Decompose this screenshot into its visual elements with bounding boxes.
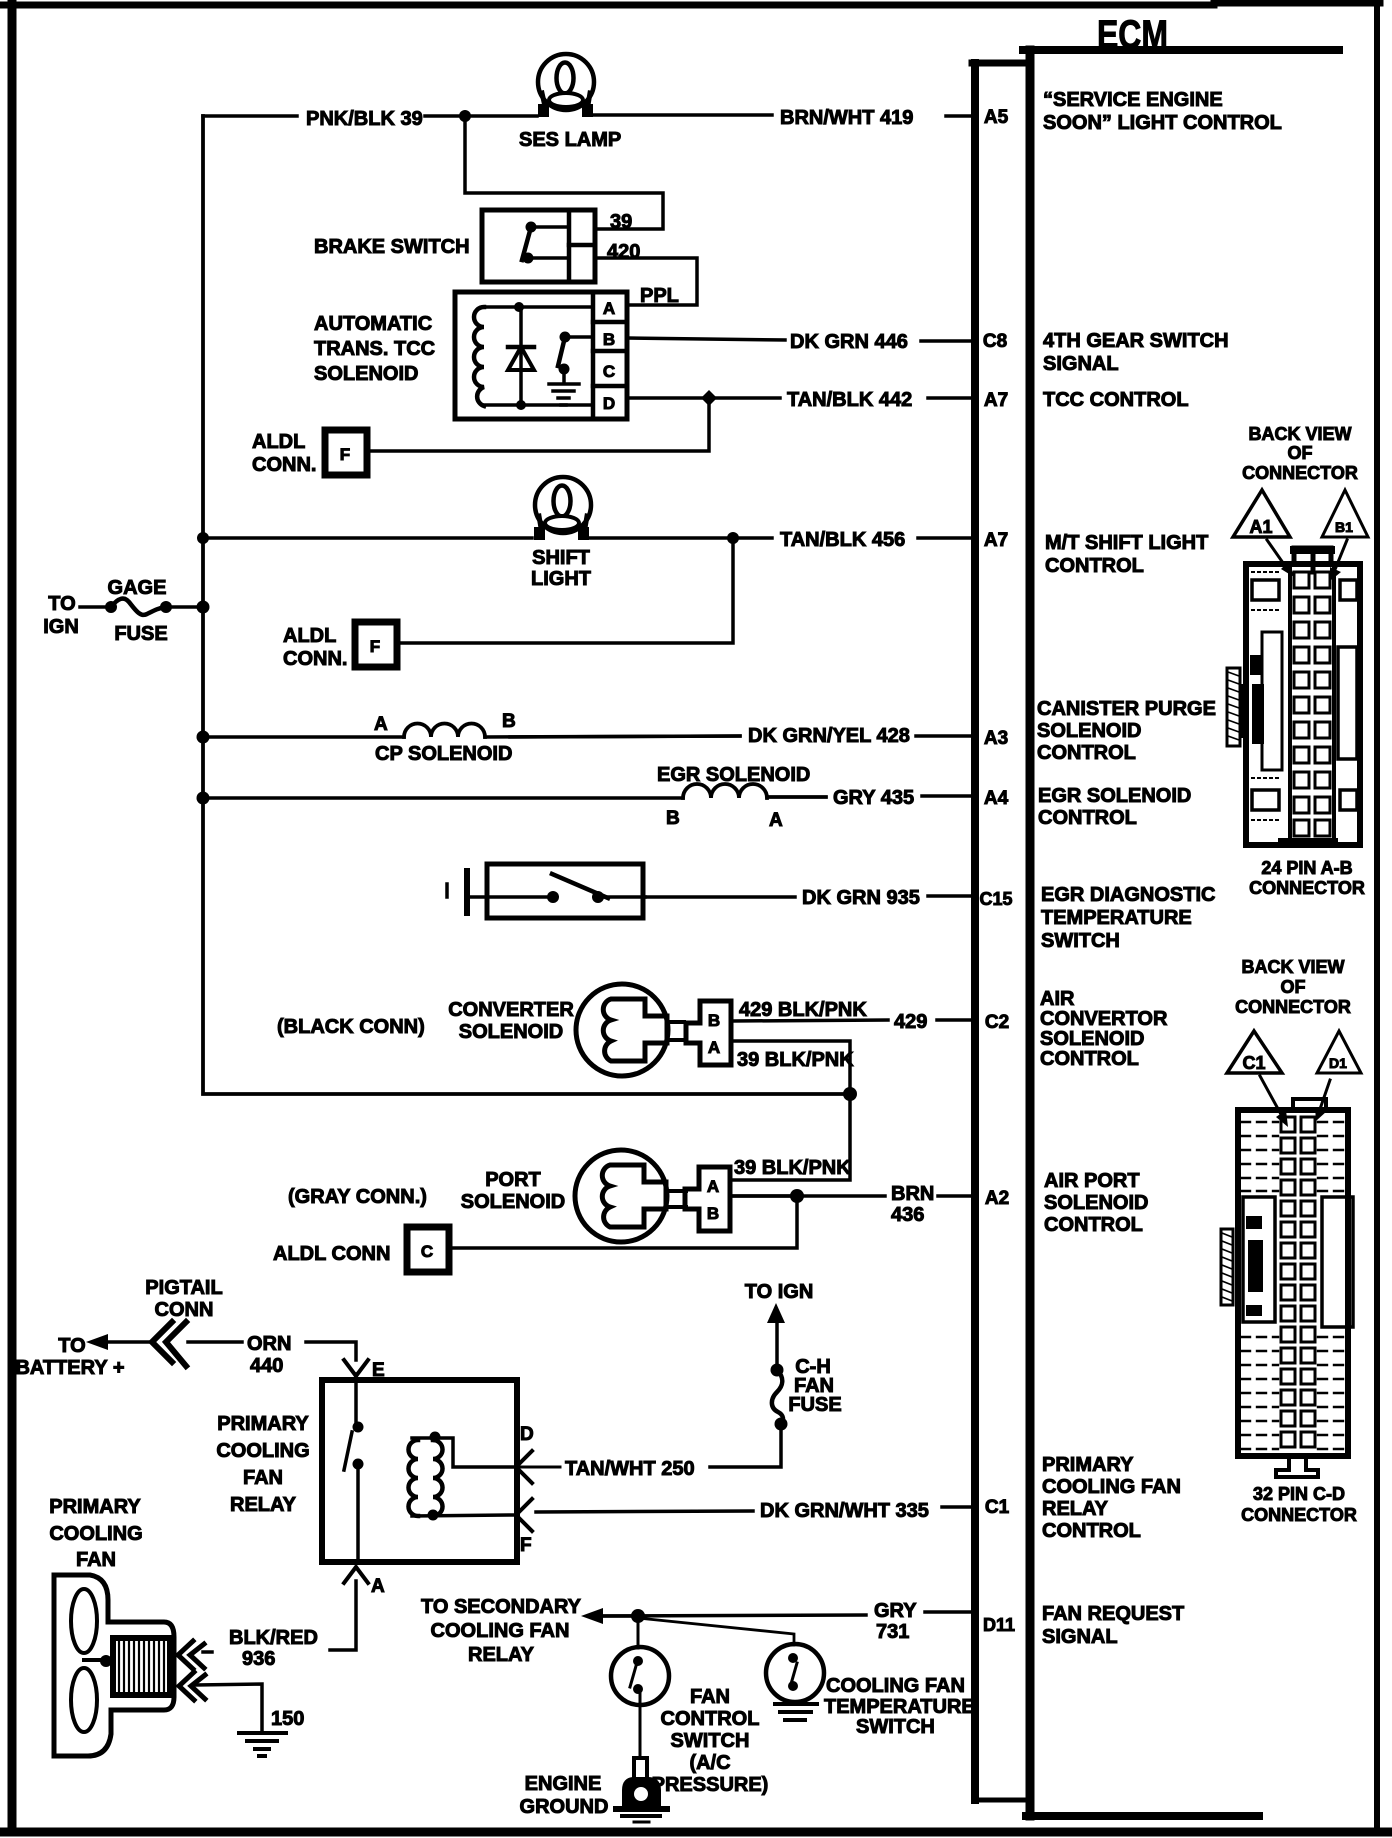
svg-text:A1: A1 bbox=[1249, 517, 1272, 537]
wire PNK/BLK 39 bbox=[203, 114, 537, 118]
svg-text:TAN/BLK 456: TAN/BLK 456 bbox=[780, 529, 905, 551]
svg-text:C1: C1 bbox=[1242, 1053, 1265, 1073]
wire 429 BLK/PNK to C2 bbox=[733, 1020, 973, 1021]
svg-text:AIR: AIR bbox=[1040, 988, 1075, 1010]
svg-text:OF: OF bbox=[1288, 443, 1313, 463]
bottom tab bbox=[1278, 838, 1338, 847]
svg-text:429: 429 bbox=[894, 1011, 927, 1033]
svg-text:F: F bbox=[370, 637, 380, 656]
pin D arrow bbox=[516, 1451, 532, 1483]
svg-text:BRN/WHT 419: BRN/WHT 419 bbox=[780, 107, 913, 129]
dashed rows lower bbox=[1241, 1337, 1345, 1449]
brake switch S1 bbox=[482, 210, 595, 282]
solenoid: automatic trans TCC solenoid bbox=[455, 292, 627, 419]
svg-text:429 BLK/PNK: 429 BLK/PNK bbox=[739, 999, 867, 1021]
svg-text:DK GRN 446: DK GRN 446 bbox=[790, 331, 908, 353]
switch FAN CONTROL (A/C pressure) bbox=[611, 1647, 669, 1758]
svg-text:BACK VIEW: BACK VIEW bbox=[1242, 957, 1345, 977]
wire TAN/WHT 250 bbox=[516, 1466, 560, 1469]
wire GRY 731 to D11 bbox=[595, 1612, 973, 1616]
svg-text:B1: B1 bbox=[1335, 519, 1353, 535]
node bus/CP solenoid bbox=[197, 731, 210, 744]
svg-text:SIGNAL: SIGNAL bbox=[1042, 1626, 1118, 1648]
svg-text:SOLENOID: SOLENOID bbox=[1040, 1028, 1144, 1050]
svg-text:ALDL: ALDL bbox=[252, 431, 305, 453]
solenoid PORT (circle) bbox=[575, 1150, 686, 1242]
svg-text:ALDL: ALDL bbox=[283, 625, 336, 647]
wire BLK/RED 936 bbox=[330, 1581, 356, 1650]
svg-text:LIGHT: LIGHT bbox=[531, 568, 591, 590]
node 39 BLK/PNK junction bbox=[843, 1087, 857, 1101]
svg-text:CONN.: CONN. bbox=[283, 648, 347, 670]
svg-text:EGR DIAGNOSTIC: EGR DIAGNOSTIC bbox=[1041, 884, 1215, 906]
node C1 triangle bbox=[1227, 1031, 1288, 1127]
svg-text:SWITCH: SWITCH bbox=[856, 1716, 935, 1738]
svg-text:OF: OF bbox=[1281, 977, 1306, 997]
keyway bottom left bbox=[1252, 790, 1279, 810]
svg-text:C15: C15 bbox=[979, 889, 1012, 909]
wire BRN/WHT 419 to A5 bbox=[592, 115, 973, 116]
node D1 triangle bbox=[1315, 1031, 1361, 1121]
node junction PNK/BLK 39 bbox=[459, 110, 471, 122]
node GRY 731 junction bbox=[631, 1609, 645, 1623]
svg-text:EGR SOLENOID: EGR SOLENOID bbox=[657, 764, 810, 786]
wire DK GRN/YEL 428 to A3 bbox=[510, 736, 973, 737]
svg-text:A: A bbox=[769, 810, 783, 831]
svg-text:39 BLK/PNK: 39 BLK/PNK bbox=[734, 1157, 851, 1179]
svg-text:FAN REQUEST: FAN REQUEST bbox=[1042, 1603, 1184, 1625]
svg-text:AUTOMATIC: AUTOMATIC bbox=[314, 313, 432, 335]
wire 39 BLK/PNK converter A to junction bbox=[730, 1041, 850, 1180]
svg-text:D11: D11 bbox=[983, 1615, 1015, 1635]
svg-text:IGN: IGN bbox=[43, 616, 79, 638]
svg-text:SOLENOID: SOLENOID bbox=[314, 363, 418, 385]
svg-text:CONTROL: CONTROL bbox=[1042, 1520, 1141, 1542]
left middle slot bbox=[1243, 1197, 1275, 1322]
svg-text:A: A bbox=[708, 1038, 720, 1057]
wire to gage fuse bbox=[80, 605, 111, 609]
svg-text:(GRAY CONN.): (GRAY CONN.) bbox=[288, 1186, 427, 1208]
wire ORN 440 bbox=[188, 1340, 242, 1344]
wire port B to BRN 436 junction and ALDL C bbox=[730, 1194, 797, 1198]
wire shift light row bbox=[203, 536, 532, 540]
svg-text:DK GRN/WHT 335: DK GRN/WHT 335 bbox=[760, 1500, 929, 1522]
svg-text:SIGNAL: SIGNAL bbox=[1043, 353, 1119, 375]
svg-text:CONTROL: CONTROL bbox=[1037, 742, 1136, 764]
svg-text:BATTERY +: BATTERY + bbox=[15, 1357, 124, 1379]
svg-text:TO: TO bbox=[58, 1335, 85, 1357]
svg-text:COOLING FAN: COOLING FAN bbox=[826, 1675, 965, 1697]
svg-text:BACK VIEW: BACK VIEW bbox=[1249, 424, 1352, 444]
diode D1 inside TCC solenoid bbox=[508, 302, 534, 410]
svg-text:936: 936 bbox=[242, 1648, 275, 1670]
wire coil bottom to pin D bbox=[484, 403, 593, 407]
svg-text:BLK/RED: BLK/RED bbox=[229, 1627, 318, 1649]
svg-text:CONNECTOR: CONNECTOR bbox=[1241, 1505, 1357, 1525]
arrow to battery bbox=[86, 1334, 108, 1350]
svg-text:C1: C1 bbox=[985, 1497, 1010, 1518]
svg-text:150: 150 bbox=[271, 1708, 304, 1730]
svg-text:D: D bbox=[603, 394, 615, 413]
svg-text:RELAY: RELAY bbox=[468, 1644, 535, 1666]
svg-text:“SERVICE ENGINE: “SERVICE ENGINE bbox=[1043, 89, 1223, 111]
svg-text:A: A bbox=[374, 714, 388, 735]
svg-text:PNK/BLK 39: PNK/BLK 39 bbox=[306, 108, 423, 130]
switch COOLING FAN TEMPERATURE bbox=[766, 1644, 824, 1702]
keyway top left bbox=[1252, 580, 1279, 600]
svg-text:ENGINE: ENGINE bbox=[525, 1773, 602, 1795]
wire fan to 150 ground bbox=[196, 1684, 262, 1732]
4th gear switch inside TCC solenoid bbox=[558, 332, 593, 384]
left pin column squares bbox=[1281, 1117, 1295, 1447]
EGR diagnostic temperature switch bbox=[447, 864, 645, 918]
pin E arrow into relay bbox=[344, 1360, 368, 1376]
relay PRIMARY COOLING FAN RELAY box bbox=[322, 1380, 517, 1562]
svg-text:BRAKE SWITCH: BRAKE SWITCH bbox=[314, 236, 470, 258]
svg-text:SOLENOID: SOLENOID bbox=[1037, 720, 1141, 742]
svg-text:GRY: GRY bbox=[874, 1600, 917, 1622]
svg-text:D1: D1 bbox=[1329, 1055, 1347, 1071]
svg-text:A: A bbox=[707, 1177, 719, 1196]
svg-text:PRIMARY: PRIMARY bbox=[1042, 1454, 1134, 1476]
svg-text:A7: A7 bbox=[984, 390, 1008, 411]
svg-text:DK GRN/YEL 428: DK GRN/YEL 428 bbox=[748, 725, 910, 747]
svg-text:TO: TO bbox=[48, 593, 75, 615]
right pin column squares bbox=[1301, 1117, 1315, 1447]
dashed rows upper bbox=[1241, 1122, 1345, 1191]
wire TAN/BLK 456 to A7 bbox=[590, 536, 973, 540]
connector ALDL CONN. F (2) bbox=[355, 622, 397, 667]
svg-text:CONTROL: CONTROL bbox=[1045, 555, 1144, 577]
svg-text:SHIFT: SHIFT bbox=[532, 547, 590, 569]
solenoid CONVERTER (circle) bbox=[576, 984, 684, 1076]
right middle slot bbox=[1338, 647, 1357, 759]
connector ALDL CONN C bbox=[407, 1227, 449, 1272]
relay coil bbox=[409, 1432, 514, 1521]
svg-text:B: B bbox=[708, 1011, 720, 1030]
wire BRN 436 to A2 bbox=[733, 1194, 973, 1198]
fan connector chevrons (top) bbox=[178, 1641, 204, 1669]
node bus/fuse bbox=[197, 601, 210, 614]
connector plug A/B (port) bbox=[685, 1167, 730, 1231]
svg-text:C: C bbox=[421, 1242, 433, 1261]
wire GRY 435 to A4 bbox=[768, 796, 973, 797]
svg-text:SOLENOID: SOLENOID bbox=[461, 1191, 565, 1213]
svg-text:SES LAMP: SES LAMP bbox=[519, 129, 621, 151]
svg-text:731: 731 bbox=[876, 1621, 909, 1643]
svg-text:32 PIN C-D: 32 PIN C-D bbox=[1253, 1484, 1345, 1504]
svg-text:TO IGN: TO IGN bbox=[745, 1281, 814, 1303]
node A1 triangle bbox=[1233, 490, 1294, 577]
svg-text:COOLING FAN: COOLING FAN bbox=[431, 1620, 570, 1642]
svg-text:TCC CONTROL: TCC CONTROL bbox=[1043, 389, 1189, 411]
svg-text:C: C bbox=[603, 362, 615, 381]
arrow TO IGN (fan fuse) bbox=[775, 1322, 779, 1370]
fuse GAGE FUSE bbox=[105, 599, 203, 615]
svg-text:FUSE: FUSE bbox=[114, 623, 167, 645]
svg-text:420: 420 bbox=[607, 241, 640, 263]
left middle slot bbox=[1289, 628, 1292, 770]
svg-text:CONNECTOR: CONNECTOR bbox=[1242, 463, 1358, 483]
svg-text:A2: A2 bbox=[985, 1188, 1009, 1209]
svg-text:CONN: CONN bbox=[155, 1299, 214, 1321]
svg-text:C8: C8 bbox=[983, 331, 1007, 352]
svg-text:PPL: PPL bbox=[640, 285, 679, 307]
svg-text:24 PIN A-B: 24 PIN A-B bbox=[1261, 858, 1352, 878]
left pin column squares bbox=[1294, 572, 1309, 836]
wire junction to brake switch pin 39 bbox=[465, 116, 663, 229]
fan connector chevrons (bottom) bbox=[179, 1672, 205, 1700]
svg-text:SWITCH: SWITCH bbox=[1041, 930, 1120, 952]
page border frame bbox=[8, 4, 17, 1832]
motor PRIMARY COOLING FAN bbox=[54, 1575, 174, 1756]
svg-text:B: B bbox=[502, 711, 516, 732]
junction on TAN/BLK 456 bbox=[727, 532, 739, 544]
svg-text:PIGTAIL: PIGTAIL bbox=[145, 1277, 222, 1299]
svg-text:GROUND: GROUND bbox=[520, 1796, 609, 1818]
svg-text:ORN: ORN bbox=[247, 1333, 291, 1355]
main ignition bus wire bbox=[203, 116, 850, 1094]
svg-text:PRIMARY: PRIMARY bbox=[217, 1413, 309, 1435]
svg-text:F: F bbox=[340, 445, 350, 464]
junction on TAN/BLK 442 bbox=[701, 390, 717, 406]
fuse C-H FAN FUSE bbox=[771, 1364, 788, 1431]
lamp SHIFT LIGHT bbox=[534, 477, 591, 540]
svg-text:CP SOLENOID: CP SOLENOID bbox=[375, 743, 512, 765]
svg-text:SWITCH: SWITCH bbox=[671, 1730, 750, 1752]
arrow to secondary relay bbox=[581, 1608, 603, 1624]
svg-text:CONN.: CONN. bbox=[252, 454, 316, 476]
serrated lock bar bbox=[1227, 668, 1240, 746]
svg-text:39 BLK/PNK: 39 BLK/PNK bbox=[737, 1049, 854, 1071]
svg-text:A5: A5 bbox=[984, 107, 1009, 128]
wire coil top to pin A bbox=[484, 305, 593, 309]
keyway bottom right bbox=[1340, 790, 1357, 810]
svg-text:A4: A4 bbox=[984, 788, 1009, 809]
serrated lock bar bbox=[1221, 1229, 1233, 1305]
svg-text:CONNECTOR: CONNECTOR bbox=[1235, 997, 1351, 1017]
svg-text:TRANS. TCC: TRANS. TCC bbox=[314, 338, 435, 360]
engine ground stud bbox=[616, 1758, 667, 1822]
svg-text:CONVERTOR: CONVERTOR bbox=[1040, 1008, 1168, 1030]
svg-text:A: A bbox=[603, 299, 615, 318]
svg-text:COOLING: COOLING bbox=[216, 1440, 309, 1462]
svg-text:A3: A3 bbox=[984, 728, 1008, 749]
wire DK GRN 935 to C15 bbox=[645, 896, 973, 897]
pin F arrow bbox=[516, 1499, 532, 1531]
ECM U1 module box bbox=[1023, 13, 1339, 1816]
svg-text:TEMPERATURE: TEMPERATURE bbox=[1041, 907, 1192, 929]
right middle slot bbox=[1322, 1197, 1353, 1327]
pin A arrow below relay bbox=[344, 1567, 368, 1583]
node bus/EGR bbox=[197, 792, 210, 805]
svg-text:B: B bbox=[666, 808, 680, 829]
svg-text:CONNECTOR: CONNECTOR bbox=[1249, 878, 1365, 898]
svg-text:M/T SHIFT LIGHT: M/T SHIFT LIGHT bbox=[1045, 532, 1208, 554]
svg-text:A7: A7 bbox=[984, 530, 1008, 551]
solenoid CP (canister purge) bbox=[203, 724, 740, 738]
svg-text:FUSE: FUSE bbox=[788, 1394, 841, 1416]
node B1 triangle bbox=[1322, 490, 1368, 581]
svg-text:4TH GEAR SWITCH: 4TH GEAR SWITCH bbox=[1043, 330, 1229, 352]
svg-text:COOLING FAN: COOLING FAN bbox=[1042, 1476, 1181, 1498]
svg-text:A: A bbox=[371, 1576, 385, 1597]
lamp SES LAMP bbox=[538, 54, 594, 117]
svg-text:ALDL CONN: ALDL CONN bbox=[273, 1243, 390, 1265]
ground 150 bbox=[239, 1733, 286, 1756]
coil inside TCC solenoid bbox=[474, 307, 484, 406]
svg-text:CONTROL: CONTROL bbox=[1040, 1048, 1139, 1070]
svg-text:COOLING: COOLING bbox=[49, 1523, 142, 1545]
relay switch contacts bbox=[344, 1422, 364, 1563]
wire 420 / PPL brake switch to TCC pin A bbox=[595, 258, 697, 305]
svg-text:AIR PORT: AIR PORT bbox=[1044, 1170, 1140, 1192]
svg-text:CONVERTER: CONVERTER bbox=[448, 999, 574, 1021]
svg-text:(A/C: (A/C bbox=[689, 1752, 730, 1774]
svg-text:39: 39 bbox=[610, 211, 632, 233]
svg-text:RELAY: RELAY bbox=[1042, 1498, 1109, 1520]
svg-text:EGR SOLENOID: EGR SOLENOID bbox=[1038, 785, 1191, 807]
svg-text:DK GRN 935: DK GRN 935 bbox=[802, 887, 920, 909]
svg-text:PRIMARY: PRIMARY bbox=[49, 1496, 141, 1518]
connector 24 PIN A-B body bbox=[1227, 546, 1360, 847]
wire junction to temperature switch bbox=[638, 1618, 794, 1645]
svg-text:SOON” LIGHT CONTROL: SOON” LIGHT CONTROL bbox=[1043, 112, 1282, 134]
svg-text:B: B bbox=[707, 1204, 719, 1223]
right pin column squares bbox=[1315, 572, 1330, 836]
svg-text:ECM: ECM bbox=[1097, 13, 1168, 57]
svg-text:B: B bbox=[603, 330, 615, 349]
svg-text:TAN/WHT 250: TAN/WHT 250 bbox=[565, 1458, 695, 1480]
connector plug B/A (converter) bbox=[686, 1001, 731, 1065]
svg-text:PORT: PORT bbox=[485, 1169, 541, 1191]
wire TAN/BLK 442 to A7 bbox=[628, 396, 973, 400]
wire ALDL F2 to shift light junction bbox=[397, 538, 733, 643]
svg-text:FAN: FAN bbox=[690, 1686, 730, 1708]
keyway top right bbox=[1340, 580, 1357, 600]
pigtail connector chevrons bbox=[152, 1322, 186, 1366]
wire TCC pin D to TAN/BLK 442 junction bbox=[367, 398, 709, 451]
svg-text:440: 440 bbox=[250, 1355, 283, 1377]
ECM pin header column bbox=[972, 63, 1026, 1800]
wire DK GRN/WHT 335 to C1 bbox=[536, 1507, 973, 1512]
svg-text:F: F bbox=[520, 1535, 532, 1556]
svg-text:GAGE: GAGE bbox=[108, 577, 167, 599]
svg-text:TO SECONDARY: TO SECONDARY bbox=[421, 1596, 582, 1618]
svg-text:TEMPERATURE: TEMPERATURE bbox=[824, 1696, 975, 1718]
svg-text:(BLACK CONN): (BLACK CONN) bbox=[277, 1016, 425, 1038]
svg-text:FAN: FAN bbox=[76, 1549, 116, 1571]
svg-text:436: 436 bbox=[891, 1204, 924, 1226]
svg-text:SOLENOID: SOLENOID bbox=[459, 1021, 563, 1043]
connector ALDL CONN. F (1) bbox=[325, 430, 367, 475]
node bus/shift-light bbox=[197, 532, 209, 544]
svg-text:CONTROL: CONTROL bbox=[661, 1708, 760, 1730]
svg-text:C2: C2 bbox=[985, 1012, 1009, 1033]
svg-text:FAN: FAN bbox=[243, 1467, 283, 1489]
ground (temperature switch) bbox=[775, 1704, 817, 1720]
wire DK GRN 446 to C8 bbox=[628, 338, 973, 341]
svg-text:D: D bbox=[520, 1424, 534, 1445]
ECM function labels bbox=[1037, 89, 1282, 1648]
connector 32 PIN C-D body bbox=[1221, 1099, 1353, 1477]
bottom tab bbox=[1276, 1456, 1318, 1477]
svg-text:RELAY: RELAY bbox=[230, 1494, 297, 1516]
svg-text:CANISTER PURGE: CANISTER PURGE bbox=[1037, 698, 1216, 720]
svg-text:PRESSURE): PRESSURE) bbox=[652, 1774, 769, 1796]
svg-text:CONTROL: CONTROL bbox=[1044, 1214, 1143, 1236]
svg-text:GRY 435: GRY 435 bbox=[833, 787, 914, 809]
svg-text:SOLENOID: SOLENOID bbox=[1044, 1192, 1148, 1214]
ground inside TCC solenoid bbox=[549, 384, 579, 405]
wire junction down to fan control switch bbox=[637, 1616, 640, 1648]
svg-text:TAN/BLK 442: TAN/BLK 442 bbox=[787, 389, 912, 411]
svg-text:BRN: BRN bbox=[891, 1183, 934, 1205]
svg-text:CONTROL: CONTROL bbox=[1038, 807, 1137, 829]
solenoid EGR bbox=[203, 784, 826, 798]
